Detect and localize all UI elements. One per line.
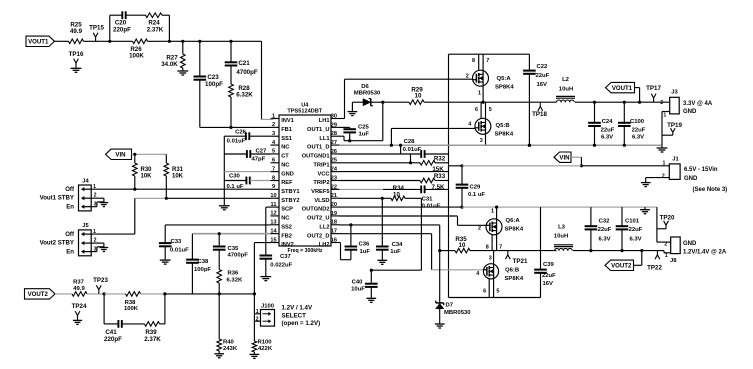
svg-text:TP21: TP21 [513,258,528,265]
svg-text:TP24: TP24 [72,303,87,310]
svg-text:SP8K4: SP8K4 [495,85,514,91]
svg-text:VIN: VIN [115,151,125,158]
svg-text:C24: C24 [602,119,614,125]
svg-text:22uF: 22uF [629,227,643,233]
svg-text:Vout2 STBY: Vout2 STBY [40,240,74,247]
svg-text:3: 3 [272,131,275,137]
svg-text:47pF: 47pF [252,156,266,162]
ground for R27 [177,70,188,72]
capacitor C34 1uF [381,198,383,246]
wire loop left leg [109,15,111,41]
wire switch node channel 1 [424,101,483,103]
capacitor C32 22uF output ch2 [590,207,592,226]
pin 2 FB1 stub [271,126,280,128]
svg-text:C27: C27 [256,149,268,155]
ground on OUTGND2 row [644,207,646,209]
svg-text:OUT2_U: OUT2_U [307,216,329,222]
wire LL1 riser [382,102,384,141]
test point TP20 [665,225,667,229]
svg-text:220pF: 220pF [104,336,122,343]
ground for TP16 [71,67,82,69]
svg-text:INV2: INV2 [281,242,294,248]
svg-text:SELECT: SELECT [282,312,307,319]
pin 19 OUT2_U stub [331,215,340,217]
pin 13 SS2 stub [271,224,280,226]
svg-text:30: 30 [331,113,337,119]
wire VCC row [340,171,449,173]
svg-text:1: 1 [491,208,494,214]
svg-text:SCP: SCP [281,207,293,213]
svg-text:13: 13 [270,220,276,226]
svg-text:J8: J8 [670,258,677,264]
svg-text:R31: R31 [172,167,184,173]
capacitor C101 22uF output ch2 [621,207,623,226]
ground for D6 anode [351,102,353,111]
wire OUT2_D to gate Q6:B [340,233,432,235]
svg-text:J5: J5 [82,223,89,229]
svg-text:10: 10 [415,93,422,100]
svg-text:18: 18 [331,220,337,226]
resistor R36 6.32K [217,270,222,284]
capacitor C40 10uF [370,270,372,283]
svg-text:MBR0530: MBR0530 [444,310,471,316]
svg-text:5: 5 [489,107,492,113]
resistor R40 243K to ground [218,294,220,339]
svg-text:TP23: TP23 [93,277,108,284]
node VOUT2 tag output [641,251,643,266]
resistor R38 100K [104,293,125,295]
svg-text:SP8K4: SP8K4 [505,276,524,282]
svg-text:C30: C30 [229,174,241,180]
wire L3 to output ch2 [573,250,664,252]
svg-text:22: 22 [331,184,337,190]
node VOUT2 tag [25,289,56,299]
svg-text:OUT1_U: OUT1_U [307,127,329,133]
capacitor C33 0.01uF on SS2 [164,225,166,243]
ground for C40 [366,297,376,299]
resistor R32 15K on TRIP1 [340,162,421,164]
wire C41 branch down [103,294,105,324]
wire R25 to node [84,40,110,42]
pin 4 NC stub [271,144,280,146]
connector J1 input [669,164,680,180]
svg-text:1: 1 [663,112,666,118]
svg-text:D6: D6 [361,84,369,90]
wire OUTGND1 row with riser to ground bus [340,153,422,155]
pin 28 LL1 stub [331,135,340,137]
resistor R33 7.5K on TRIP2 [340,180,421,182]
ground for R40 [214,353,224,355]
capacitor C38 100pF [191,234,193,260]
svg-text:TP22: TP22 [647,265,662,272]
wire loop top right + right leg [162,14,169,16]
svg-text:100pF: 100pF [205,81,223,88]
ground for decoupling bus [219,205,230,207]
wire VOUT2 to R37 [55,293,72,295]
svg-text:Q5:B: Q5:B [496,123,510,129]
pin 11 SCP stub [271,206,280,208]
pin 15 INV2 stub [271,241,280,243]
svg-text:C32: C32 [599,218,611,224]
node VIN tag right [554,152,571,162]
wire VOUT1 to R25 [55,40,69,42]
svg-text:1: 1 [272,113,275,119]
node VOUT1 input tag [26,36,55,46]
capacitor C28 0.01uF [420,150,422,158]
svg-text:GND: GND [684,176,698,182]
ground at bus end [661,145,663,147]
resistor R29 10 [383,101,409,103]
svg-text:100pF: 100pF [194,267,211,273]
capacitor C39 22uF input ch2 [540,207,542,269]
pin 21 VLSD stub [331,197,340,199]
wire R26 to divider junctions [148,40,262,42]
svg-text:OUTGND1: OUTGND1 [302,154,330,160]
svg-text:J3: J3 [671,89,678,95]
svg-text:20: 20 [331,202,337,208]
svg-text:Q6:B: Q6:B [505,268,519,274]
svg-text:6.32K: 6.32K [236,92,253,99]
svg-text:4: 4 [468,122,471,128]
svg-text:16V: 16V [543,281,554,287]
node VOUT1 tag output [639,88,641,103]
svg-text:6.5V - 15Vin: 6.5V - 15Vin [684,167,718,173]
svg-text:TP17: TP17 [646,85,661,92]
svg-text:100K: 100K [124,306,139,312]
connector J5 Vout2 STBY [79,230,92,256]
wire OUT2_U to gate Q6:A [340,215,458,217]
svg-text:2: 2 [478,226,481,232]
svg-text:6.3V: 6.3V [632,135,644,141]
pin 30 LH1 stub [331,118,340,120]
wire INV1 riser [261,41,263,119]
svg-text:FB2: FB2 [281,233,292,239]
svg-text:R36: R36 [228,270,240,276]
pin 23 TRIP2 stub [331,179,340,181]
ground for R100 [250,353,260,355]
resistor R28 6.32K [229,84,234,97]
pin 17 OUT2_D stub [331,233,340,235]
svg-text:C37: C37 [280,254,292,260]
svg-text:220pF: 220pF [113,26,131,33]
svg-text:1: 1 [93,184,96,190]
svg-text:GND: GND [281,171,294,177]
svg-text:J100: J100 [261,303,274,309]
pin 3 SS1 stub [271,135,280,137]
svg-text:1uF: 1uF [359,132,370,138]
pin 16 LH2 stub [331,241,340,243]
svg-text:C40: C40 [352,280,364,286]
wire GND pin7 row [224,171,270,173]
svg-text:3: 3 [480,138,483,144]
wire VIN row to J1 [449,165,463,167]
svg-text:OUT1_D: OUT1_D [307,145,329,151]
connector J4 Vout1 STBY [79,185,92,211]
diode D7 MBR0530 [439,251,441,303]
svg-text:LH1: LH1 [319,118,330,124]
svg-text:15: 15 [270,237,276,243]
svg-text:6.32K: 6.32K [227,278,243,284]
pin 20 OUTGND2 stub [331,206,340,208]
capacitor C31 0.01uF on VREF5 [340,188,384,190]
test point TP19 [662,134,673,136]
svg-text:22uF: 22uF [598,227,612,233]
capacitor C37 0.022uF [260,255,273,257]
svg-text:TP15: TP15 [89,25,104,32]
wire Q6 bottom rail [449,297,541,299]
pin 10 STBY2 stub [271,197,280,199]
svg-text:VOUT1: VOUT1 [28,38,49,45]
wire GND to TP20 and J8 [656,207,658,242]
svg-text:C26: C26 [235,129,247,135]
svg-text:VOUT2: VOUT2 [611,262,632,269]
pin 14 FB2 stub [271,233,280,235]
svg-text:1: 1 [93,229,96,235]
svg-text:4700pF: 4700pF [236,69,258,76]
resistor R39 2.37K [122,323,145,325]
svg-text:2: 2 [660,100,663,106]
svg-text:INV1: INV1 [281,118,294,124]
svg-text:R40: R40 [223,339,235,345]
svg-text:TP18: TP18 [532,111,547,118]
svg-text:L2: L2 [562,77,570,83]
svg-text:NC: NC [281,162,289,168]
svg-text:VLSD: VLSD [314,198,329,204]
svg-text:R30: R30 [141,167,153,173]
svg-text:OUT2_D: OUT2_D [307,233,329,239]
svg-text:8: 8 [472,58,475,64]
svg-text:17: 17 [331,229,337,235]
wire decoupling bus vertical [223,136,225,205]
svg-text:34.0K: 34.0K [161,61,178,68]
wire VIN tag stub [571,156,581,158]
svg-text:6.3V: 6.3V [601,135,613,141]
capacitor C41 220pF [117,320,119,328]
svg-text:2: 2 [662,173,665,179]
svg-text:10: 10 [270,193,276,199]
svg-text:2: 2 [256,316,259,322]
wire R39 riser [160,323,165,325]
capacitor C100 22uF output [623,102,625,122]
wire OUTGND2 row [340,206,463,208]
capacitor C25 1uF bootstrap [343,128,356,130]
svg-text:0.1 uF: 0.1 uF [468,192,485,198]
svg-text:TRIP2: TRIP2 [313,180,329,186]
svg-text:3: 3 [489,256,492,262]
svg-text:3.3V @ 4A: 3.3V @ 4A [683,101,713,107]
svg-text:R39: R39 [145,329,157,336]
svg-text:49.9: 49.9 [73,286,85,292]
svg-text:22uF: 22uF [601,127,615,133]
wire FB1 row [200,126,271,128]
svg-text:STBY2: STBY2 [281,198,299,204]
svg-text:VCC: VCC [317,171,329,177]
svg-text:24: 24 [331,167,338,173]
svg-text:28: 28 [331,131,337,137]
svg-text:14: 14 [270,228,277,234]
wire STBY1 row [91,188,270,190]
svg-text:2: 2 [466,73,469,79]
svg-text:D7: D7 [446,303,454,309]
wire divider row right [165,293,255,295]
wire C20 to R24 [126,14,146,16]
pin 9 STBY1 stub [271,188,280,190]
wire VIN row [132,153,167,155]
svg-text:C25: C25 [358,124,370,130]
svg-text:C38: C38 [198,259,210,265]
svg-text:2.37K: 2.37K [147,26,164,33]
svg-text:LH2: LH2 [319,242,330,248]
svg-text:Freq = 300kHz: Freq = 300kHz [287,248,322,254]
ground for C34 [377,259,387,261]
svg-text:C29: C29 [470,184,482,190]
svg-text:1: 1 [256,309,259,315]
svg-text:21: 21 [331,193,337,199]
svg-text:C39: C39 [543,262,555,268]
wire L2 to output [575,101,670,103]
svg-text:NC: NC [281,145,289,151]
pin 18 LL2 stub [331,224,340,226]
capacitor C30 0.1uF on REF [224,180,246,182]
wire LH1 to gate Q5:A [340,118,345,120]
test point TP15 [95,37,97,41]
pin 24 VCC stub [331,171,340,173]
capacitor C22 22uF input [528,54,530,70]
resistor R30 10K [134,154,136,163]
svg-text:12: 12 [270,211,276,217]
connector J8 output ch2 [663,251,665,253]
svg-text:TPS5124DBT: TPS5124DBT [287,109,322,115]
transistor Q5:B SP8K4 [480,102,482,118]
svg-text:6.3V: 6.3V [598,236,610,242]
svg-text:C28: C28 [404,139,416,145]
svg-text:100K: 100K [129,52,144,59]
ground for J5 [100,247,109,249]
svg-text:4: 4 [476,271,479,277]
pin 1 INV1 stub [271,118,280,120]
svg-text:VOUT1: VOUT1 [612,85,633,92]
test point TP17 [653,98,655,102]
resistor R27 34.0K to ground [182,41,184,54]
ground for C33 [160,259,171,261]
svg-text:C22: C22 [537,64,549,70]
inductor L2 10uH [556,95,575,97]
svg-text:29: 29 [331,122,337,128]
svg-text:C41: C41 [105,329,117,336]
svg-text:8: 8 [272,175,275,181]
svg-text:0.01uF: 0.01uF [403,147,422,153]
svg-text:C101: C101 [625,218,640,224]
wire VLSD drop to C40 [420,198,422,270]
wire J100 riser [253,294,255,341]
svg-text:49.9: 49.9 [70,28,83,35]
op-amp U4 TPS5124DBT controller IC body [279,115,331,246]
svg-text:TP19: TP19 [667,122,682,129]
svg-text:Q6:A: Q6:A [506,218,521,224]
pin 25 TRIP1 stub [331,162,340,164]
wire loop top left segment [110,14,123,16]
svg-text:5: 5 [272,149,275,155]
wire OUT1_U to C25 [340,126,350,128]
svg-text:10uH: 10uH [554,234,568,240]
node A feedback junction [108,40,111,43]
ground for C37 [260,276,271,278]
resistor R35 10 [440,250,455,252]
ground for J1 pin2 [641,182,651,184]
svg-text:243K: 243K [223,346,238,352]
svg-text:GND: GND [683,241,697,247]
svg-text:U4: U4 [301,102,309,108]
svg-text:2.37K: 2.37K [144,336,161,343]
svg-text:NC: NC [281,216,289,222]
svg-text:OUTGND2: OUTGND2 [302,207,330,213]
svg-text:0.01uF: 0.01uF [227,139,246,145]
svg-text:L3: L3 [558,224,566,230]
svg-text:1.2V / 1.4V: 1.2V / 1.4V [282,305,313,312]
svg-text:Q5:A: Q5:A [497,76,512,82]
svg-text:10uH: 10uH [559,86,573,92]
svg-text:GND: GND [683,109,697,115]
svg-text:11: 11 [271,202,277,208]
svg-text:25: 25 [331,158,337,164]
test point TP21 [507,251,509,255]
connector J3 output [670,97,680,114]
svg-text:8: 8 [486,245,489,251]
svg-text:VREF5: VREF5 [311,189,329,195]
svg-text:7: 7 [499,245,502,251]
resistor R34 10 on VLSD [340,197,392,199]
capacitor C20 220pF [121,11,123,19]
svg-text:C21: C21 [238,60,250,67]
svg-text:0.01uF: 0.01uF [170,247,189,253]
capacitor C26 0.01uF on SS1 [224,135,246,137]
pin 27 OUT1_D stub [331,144,340,146]
svg-text:C33: C33 [171,239,183,245]
svg-text:4700pF: 4700pF [228,253,249,259]
svg-text:R37: R37 [73,280,85,286]
inductor L3 10uH [554,244,573,246]
pin 7 GND stub [271,171,280,173]
svg-text:LL1: LL1 [319,136,329,142]
svg-text:C31: C31 [422,196,434,202]
wire VIN riser [448,54,450,297]
wire LH2 jog to C36 [340,242,341,244]
wire main row to R26 [110,40,133,42]
resistor R31 10K [165,154,167,163]
pin 6 NC stub [271,162,280,164]
svg-text:En: En [66,203,74,210]
svg-text:J4: J4 [82,178,89,184]
svg-text:10: 10 [459,242,466,249]
svg-text:R33: R33 [434,173,446,180]
svg-text:VOUT2: VOUT2 [28,291,49,298]
svg-text:6: 6 [272,158,275,164]
svg-text:(open = 1.2V): (open = 1.2V) [282,320,321,327]
resistor R26 100K [133,39,148,44]
capacitor C24 22uF output [594,102,596,122]
svg-text:CT: CT [281,154,289,160]
svg-text:C34: C34 [392,242,404,248]
svg-text:7: 7 [486,58,489,64]
test point TP18 [539,102,541,106]
capacitor C21 4700pF [230,41,232,62]
pin 29 OUT1_U stub [331,126,340,128]
capacitor C36 1uF [350,250,352,260]
svg-text:(See Note 3): (See Note 3) [693,187,728,193]
svg-text:1: 1 [478,90,481,96]
connector J100 select jumper [254,313,260,315]
wire STBY2 row [135,197,167,199]
